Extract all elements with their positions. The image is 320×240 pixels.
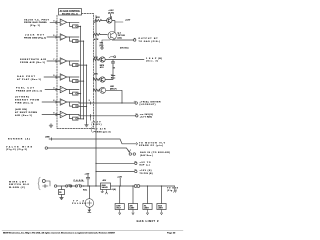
terminal line feed B start bbox=[45, 147, 47, 149]
input label AIR ON bbox=[15, 108, 37, 117]
Q2 label bbox=[100, 65, 105, 69]
bottom-left harness label bbox=[9, 181, 29, 189]
svg-text:47K Ohm: 47K Ohm bbox=[120, 47, 129, 50]
Q1 label bbox=[118, 32, 126, 39]
svg-text:SUBSTRATE AIR: SUBSTRATE AIR bbox=[20, 58, 46, 61]
capacitor C4 bbox=[111, 60, 114, 67]
svg-text:SPARE OF (pin): SPARE OF (pin) bbox=[139, 144, 163, 147]
wire input 2 bbox=[47, 36, 60, 38]
label to gas fig bbox=[167, 186, 179, 192]
resistor R11 bbox=[94, 89, 101, 91]
wire Q3 out bbox=[105, 66, 113, 80]
label trial driver bbox=[140, 100, 161, 106]
wire relay bus bbox=[111, 185, 175, 187]
svg-text:R1: R1 bbox=[59, 192, 61, 194]
svg-text:AT SHUT DOWN: AT SHUT DOWN bbox=[15, 111, 37, 114]
wire Q1 emitter to output terminal bbox=[112, 39, 133, 41]
resistor R8 bbox=[94, 33, 101, 35]
bus end arrow bbox=[174, 186, 176, 192]
svg-text:BDW Electronics, Inc. Mfg in: BDW Electronics, Inc. Mfg in NY, USA. Al… bbox=[3, 232, 116, 235]
svg-text:(Fig.2) (Fig.2): (Fig.2) (Fig.2) bbox=[6, 149, 27, 151]
svg-text:PRESS AIR (Sec.1): PRESS AIR (Sec.1) bbox=[16, 90, 42, 93]
svg-text:(AIR ON): (AIR ON) bbox=[15, 108, 27, 111]
terminal output burner bbox=[134, 39, 136, 41]
svg-text:AIR (Sec.1): AIR (Sec.1) bbox=[15, 114, 32, 117]
svg-text:TO AIR: TO AIR bbox=[94, 128, 106, 131]
resistor R9 bbox=[94, 58, 101, 60]
grounds below relays bbox=[119, 210, 163, 215]
input label VALVE T.C. PROT bbox=[24, 18, 50, 27]
sensor circle bbox=[42, 180, 45, 183]
wire +5V branch bbox=[96, 162, 134, 164]
svg-text:(OTHER): (OTHER) bbox=[15, 97, 29, 99]
svg-text:3: 3 bbox=[53, 20, 54, 22]
transistor Q4 bbox=[100, 87, 106, 93]
wire alarm line bbox=[79, 115, 136, 116]
svg-text:+TRIAL DRIVER: +TRIAL DRIVER bbox=[140, 100, 161, 103]
transistor Q7 bbox=[107, 18, 112, 23]
svg-text:FROM GAS PANEL: FROM GAS PANEL bbox=[24, 21, 48, 24]
svg-text:VALVE T.C. PROT: VALVE T.C. PROT bbox=[24, 18, 50, 21]
svg-text:LINE: LINE bbox=[45, 136, 50, 138]
svg-text:GAS LIMIT 2: GAS LIMIT 2 bbox=[137, 219, 160, 223]
transistor Q1 bbox=[108, 31, 116, 39]
label alarm bbox=[140, 113, 153, 119]
long vertical bus bbox=[95, 16, 97, 187]
junction dots on switch line bbox=[83, 185, 84, 186]
input label GAS PROT bbox=[17, 75, 41, 81]
wire input 7 bbox=[42, 114, 60, 116]
transistor Q2 bbox=[100, 57, 105, 62]
label mid-left B bbox=[6, 145, 33, 151]
wire line feed B to gas-in bbox=[48, 148, 130, 152]
terminal alarm bbox=[136, 115, 138, 117]
svg-text:TO GAS: TO GAS bbox=[167, 186, 179, 189]
comparator U1D bbox=[57, 74, 80, 83]
svg-text:(4.8V): (4.8V) bbox=[108, 11, 114, 14]
svg-text:TO PIN (B): TO PIN (B) bbox=[140, 173, 153, 175]
wire Q4 out bbox=[106, 90, 122, 103]
comparator U1B bbox=[57, 34, 80, 43]
svg-text:WIRE LMT: WIRE LMT bbox=[9, 181, 27, 183]
svg-text:TO MOTOR VLV: TO MOTOR VLV bbox=[139, 142, 166, 144]
Q4 label bbox=[110, 86, 117, 90]
wire switch line bbox=[57, 185, 101, 187]
switch contact S1 bbox=[66, 185, 68, 187]
svg-text:GAS IN (TO BOILER): GAS IN (TO BOILER) bbox=[140, 151, 170, 154]
comparator U1A bbox=[57, 19, 80, 28]
wire to motor bbox=[89, 186, 91, 199]
resistor box R20 bbox=[61, 186, 63, 190]
ground below motor bbox=[88, 207, 91, 212]
svg-text:BURNER (A): BURNER (A) bbox=[8, 138, 30, 141]
wire input 1 bbox=[50, 21, 60, 23]
svg-text:+m 24V(S): +m 24V(S) bbox=[140, 113, 153, 116]
svg-text:VALVE: VALVE bbox=[102, 186, 109, 189]
svg-text:47K: 47K bbox=[96, 16, 100, 19]
Q3 label bbox=[111, 75, 116, 79]
wire input 5 bbox=[45, 89, 60, 91]
svg-text:2: 2 bbox=[89, 100, 90, 102]
wire 12V branch bbox=[96, 171, 134, 173]
terminal gas in bbox=[129, 153, 131, 155]
terminal +5V bbox=[135, 162, 137, 164]
wire Q2 out bbox=[105, 59, 144, 61]
relay box K2 bbox=[115, 204, 124, 210]
svg-text:(LOCKOUT): (LOCKOUT) bbox=[140, 104, 156, 106]
resistor R10 bbox=[94, 78, 101, 80]
svg-text:JACK HOT: JACK HOT bbox=[25, 34, 45, 37]
svg-text:(4.8V): (4.8V) bbox=[92, 123, 102, 126]
svg-text:W.GRN (C): W.GRN (C) bbox=[9, 187, 25, 189]
switch contact S2 bbox=[75, 185, 77, 187]
svg-text:ENERGY FROM: ENERGY FROM bbox=[15, 100, 39, 102]
terminal trial driver bbox=[135, 102, 137, 104]
relay drops bbox=[119, 186, 121, 204]
junction dots internal bbox=[80, 26, 87, 120]
internal bus verticals bbox=[80, 26, 87, 122]
ground inside box bottom bbox=[85, 123, 89, 127]
svg-text:TO GAS (FIG.): TO GAS (FIG.) bbox=[139, 40, 161, 43]
svg-text:FROM GND (Fig.1): FROM GND (Fig.1) bbox=[24, 38, 46, 40]
svg-text:PULSER: PULSER bbox=[72, 203, 87, 205]
relay box K4 bbox=[143, 204, 152, 210]
svg-text:5: 5 bbox=[53, 35, 54, 37]
svg-text:(24V Sec.): (24V Sec.) bbox=[140, 154, 153, 157]
symbols below K1 bbox=[101, 190, 104, 193]
wire supply to Q7 bbox=[110, 14, 112, 18]
svg-text:+12 V R(B): +12 V R(B) bbox=[140, 117, 152, 119]
svg-text:AT PLAT (Sec.1): AT PLAT (Sec.1) bbox=[17, 78, 41, 81]
svg-text:8: 8 bbox=[53, 113, 54, 115]
wire input 3 bbox=[47, 60, 60, 62]
transistor Q3 bbox=[100, 77, 105, 82]
svg-text:E4P (+): E4P (+) bbox=[140, 164, 150, 167]
input label JACK HOT bbox=[24, 34, 46, 40]
comparator U1G bbox=[57, 111, 80, 120]
TP2 test point bbox=[100, 43, 105, 47]
svg-text:4 (A): 4 (A) bbox=[112, 188, 117, 191]
svg-text:(Fig. 1): (Fig. 1) bbox=[167, 190, 177, 192]
svg-text:(2A): (2A) bbox=[118, 36, 122, 39]
svg-text:Page 20: Page 20 bbox=[167, 233, 176, 235]
wire input 4 bbox=[44, 76, 60, 78]
wire Q7 collector to Q1 bbox=[112, 17, 115, 32]
ground left of box bottom bbox=[49, 124, 53, 128]
svg-text:C.A.S.M.: C.A.S.M. bbox=[74, 179, 85, 182]
svg-text:FUEL CUT: FUEL CUT bbox=[16, 88, 35, 90]
label output burner bbox=[139, 38, 161, 43]
wire lockout line bbox=[79, 102, 135, 103]
terminal 12V aux bbox=[135, 170, 137, 172]
brace bbox=[38, 177, 40, 190]
+12V label top bbox=[108, 10, 114, 15]
input label FUEL CUT bbox=[16, 88, 42, 93]
footer rule bbox=[2, 230, 183, 232]
svg-text:BOARD (No.1): BOARD (No.1) bbox=[62, 12, 78, 15]
svg-text:(Fig. 1): (Fig. 1) bbox=[30, 25, 40, 27]
capacitor small bbox=[43, 185, 49, 188]
svg-text:+12V: +12V bbox=[125, 20, 131, 22]
board title box bbox=[59, 9, 82, 16]
terminal switch line bbox=[54, 185, 56, 187]
fuse F1 bbox=[134, 185, 137, 188]
svg-text:(Sec. 2): (Sec. 2) bbox=[146, 61, 158, 63]
svg-text:+12V: +12V bbox=[85, 173, 90, 175]
wire input 6 bbox=[42, 101, 60, 103]
comparator U1C bbox=[57, 58, 80, 67]
label to motor spare bbox=[139, 142, 166, 147]
input label OTHER ENERGY bbox=[15, 97, 39, 105]
motor TP.A pulser bbox=[85, 199, 94, 208]
svg-text:7: 7 bbox=[53, 59, 54, 61]
A1 control board dashed box bbox=[57, 14, 94, 129]
relay box K5 bbox=[157, 204, 166, 210]
comparator U1E bbox=[57, 86, 80, 95]
svg-text:FIRE (Sec.1): FIRE (Sec.1) bbox=[15, 103, 33, 105]
svg-text:6: 6 bbox=[53, 100, 54, 102]
svg-text:4.7K: 4.7K bbox=[94, 38, 99, 41]
svg-text:4: 4 bbox=[53, 87, 54, 90]
comparator U1F bbox=[57, 99, 80, 108]
svg-text:VALVE WIRE: VALVE WIRE bbox=[6, 145, 33, 148]
pin numbers at box edge bbox=[53, 20, 54, 114]
+12V feed label mid bbox=[89, 116, 91, 120]
svg-text:SWITCH BLK: SWITCH BLK bbox=[9, 184, 29, 186]
label TP.A pulser bbox=[72, 200, 87, 206]
ground below R20 bbox=[60, 195, 64, 200]
svg-text:FROM AIR (No.1): FROM AIR (No.1) bbox=[20, 61, 45, 64]
relay box K3 bbox=[128, 204, 137, 210]
svg-text:GAS PROT: GAS PROT bbox=[17, 75, 36, 78]
svg-text:9: 9 bbox=[53, 75, 54, 77]
input label SUBSTRATE bbox=[20, 58, 46, 64]
